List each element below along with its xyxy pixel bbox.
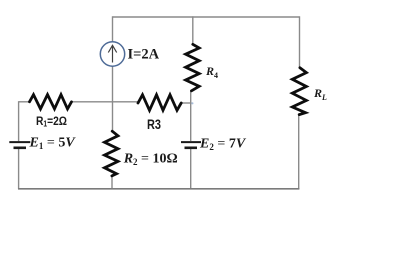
svg-text:R1=2Ω: R1=2Ω [36,114,67,129]
wire top horizontal [113,16,300,18]
wire left-branch top (node to current source) [112,16,114,42]
node junction R3/E2 rail [191,102,193,104]
wire R4-branch top [192,16,194,45]
svg-text:RL: RL [313,86,327,102]
wire E2 bottom to bottom rail [190,149,192,189]
svg-text:E1 = 5V: E1 = 5V [29,135,77,151]
current source I (circle) [100,42,124,66]
resistor R3 (zigzag) [138,95,181,111]
current source arrow [108,45,116,62]
resistor R1 (zigzag) [30,95,72,109]
wire middle horizontal left segment [19,101,30,103]
wire current source bottom to middle node [112,66,114,132]
wire bottom rail [18,188,299,190]
resistor R4 (vertical zigzag) [186,44,200,91]
wire RL bottom to bottom rail [298,114,300,189]
wire middle horizontal center segment [72,101,139,103]
wire middle horizontal right segment [181,102,191,104]
svg-text:E2 = 7V: E2 = 7V [199,137,247,153]
resistor RL (vertical zigzag) [292,68,306,115]
resistor R2 (vertical zigzag) [105,131,119,176]
wire left rail upper (to E1) [18,101,20,141]
svg-text:I=2A: I=2A [128,46,160,62]
wire R2 bottom to bottom rail [111,176,113,190]
svg-text:R4: R4 [205,64,218,80]
svg-text:R2 = 10Ω: R2 = 10Ω [123,151,178,167]
wire R4 bottom to E2 top [190,90,192,141]
svg-text:R3: R3 [147,116,161,132]
battery E1 plates [9,141,30,143]
battery E2 plates [181,141,201,143]
wire left rail lower (E1 to bottom) [18,149,20,189]
wire RL-branch top [299,16,301,68]
